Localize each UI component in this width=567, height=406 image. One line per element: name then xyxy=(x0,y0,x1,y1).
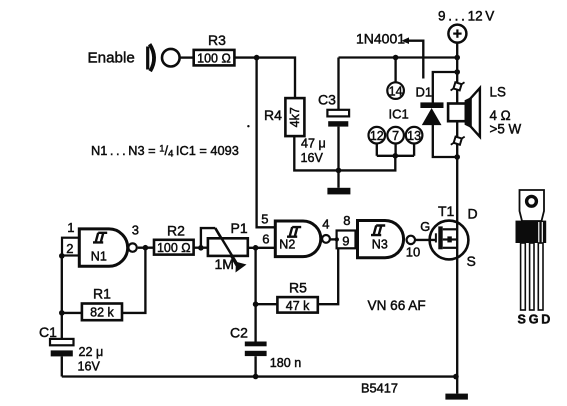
svg-text:R1: R1 xyxy=(93,286,111,302)
svg-text:C1: C1 xyxy=(39,324,57,340)
wire C1 bottom xyxy=(61,357,63,377)
wire P1 wiper loop xyxy=(201,228,215,248)
svg-text:C3: C3 xyxy=(318,92,336,108)
wire R4 bottom to ground row xyxy=(294,136,395,171)
wire P1 to N2 pin6 xyxy=(248,247,275,249)
capacitor C3 xyxy=(327,110,349,117)
svg-text:D: D xyxy=(468,206,478,222)
svg-text:47 k: 47 k xyxy=(286,299,310,313)
connector socket circle (enable) xyxy=(162,49,180,67)
svg-text:S: S xyxy=(467,253,476,269)
wire pin6 node down to C2 xyxy=(254,248,256,342)
svg-text:3: 3 xyxy=(132,222,139,237)
TO-220 hole xyxy=(527,196,537,206)
N1 input box pin2 xyxy=(62,238,79,256)
gate N1 xyxy=(79,229,127,266)
TO-220 body xyxy=(516,221,547,243)
wire R3 node down to N2 pin5 xyxy=(257,58,276,228)
wire pin12 stub xyxy=(376,144,378,156)
ground (C3) xyxy=(327,188,350,195)
connector square bottom (speaker) xyxy=(451,133,465,148)
N3 output bubble xyxy=(407,236,415,244)
svg-text:6: 6 xyxy=(262,231,269,246)
svg-text:N1: N1 xyxy=(91,250,107,264)
svg-text:R3: R3 xyxy=(208,32,226,48)
ground (bottom right) xyxy=(445,394,468,400)
N3 input box pin9 xyxy=(337,231,356,249)
svg-text:VN 66 AF: VN 66 AF xyxy=(368,298,426,313)
svg-text:SGD: SGD xyxy=(518,313,551,327)
wire main right vertical xyxy=(456,58,458,84)
wire IC pin bus xyxy=(377,155,414,157)
N2 output bubble xyxy=(322,235,330,243)
wire P1 wiper diagonal xyxy=(215,228,237,266)
svg-text:100 Ω: 100 Ω xyxy=(157,241,191,255)
wire N3 out to T1 gate xyxy=(416,239,436,241)
svg-text:14: 14 xyxy=(389,84,403,98)
capacitor C2 xyxy=(245,342,267,347)
svg-text:2: 2 xyxy=(66,241,73,256)
svg-text:R5: R5 xyxy=(289,279,307,295)
svg-text:4: 4 xyxy=(322,216,329,231)
svg-text:82 k: 82 k xyxy=(90,306,114,320)
IC1 pin 12 xyxy=(369,127,386,144)
svg-text:Enable: Enable xyxy=(88,50,135,67)
svg-text:10: 10 xyxy=(406,244,420,259)
wire pin14 stub xyxy=(394,58,396,83)
svg-text:16V: 16V xyxy=(78,359,101,373)
wire D1 branch xyxy=(433,72,457,103)
svg-text:9 . . . 12 V: 9 . . . 12 V xyxy=(438,8,494,23)
wire N2 out to N3 in xyxy=(330,238,337,240)
resistor R1 xyxy=(82,304,122,321)
svg-text:C2: C2 xyxy=(230,325,248,341)
resistor R5 xyxy=(277,297,317,313)
svg-text:T1: T1 xyxy=(438,203,455,219)
transistor T1 (MOSFET) xyxy=(430,221,469,260)
potentiometer P1 xyxy=(208,238,248,256)
svg-text:12: 12 xyxy=(370,129,384,143)
svg-text:13: 13 xyxy=(407,129,421,143)
gate N2 xyxy=(275,221,321,257)
svg-text:22 μ: 22 μ xyxy=(79,345,104,359)
svg-text:1N4001: 1N4001 xyxy=(356,31,405,47)
svg-text:N2: N2 xyxy=(279,238,295,252)
wire pin13 stub xyxy=(413,144,415,156)
wire pin7 stub xyxy=(394,144,396,156)
IC1 pin 13 xyxy=(406,127,423,144)
svg-text:P1: P1 xyxy=(231,220,248,236)
svg-text:B5417: B5417 xyxy=(361,380,398,395)
svg-text:100 Ω: 100 Ω xyxy=(197,52,231,66)
resistor R3 xyxy=(194,50,235,66)
connector plug (enable) xyxy=(148,44,154,71)
gate N3 xyxy=(358,221,404,258)
wire R1 right vertical xyxy=(122,248,145,313)
TO-220 package tab xyxy=(520,190,545,221)
wire R1 left xyxy=(62,312,82,314)
svg-text:4k7: 4k7 xyxy=(288,107,302,127)
resistor R2 xyxy=(154,240,194,255)
svg-text:180 n: 180 n xyxy=(270,356,302,370)
wire R5 left xyxy=(256,303,278,305)
svg-text:R4: R4 xyxy=(264,107,282,123)
arrowhead of callout xyxy=(402,37,410,44)
svg-text:7: 7 xyxy=(392,129,399,143)
connector square top (speaker) xyxy=(451,79,465,94)
svg-text:9: 9 xyxy=(342,234,349,249)
svg-text:N1 . . . N3 = 1/4 IC1 = 4093: N1 . . . N3 = 1/4 IC1 = 4093 xyxy=(91,143,239,160)
diode D1 xyxy=(420,102,443,108)
wire C3 top xyxy=(337,58,339,111)
svg-text:N3: N3 xyxy=(372,238,388,252)
wire R3 to R4 corner xyxy=(234,58,295,99)
supply terminal 9...12V xyxy=(448,25,466,43)
wire supply drop xyxy=(456,42,458,57)
schmitt symbol N3 xyxy=(371,226,385,236)
wire R5 right up to N3 input xyxy=(318,248,338,304)
svg-text:16V: 16V xyxy=(301,151,324,165)
svg-text:G: G xyxy=(420,219,430,234)
svg-text:>5 W: >5 W xyxy=(490,121,522,136)
svg-text:1: 1 xyxy=(67,220,74,235)
wire C2 bottom xyxy=(254,356,256,376)
wire N1 input down to C1 xyxy=(61,256,63,339)
wire N1 pin3 to R2 xyxy=(138,247,154,249)
wire bottom rail xyxy=(62,375,456,377)
svg-text:5: 5 xyxy=(261,212,268,227)
N1 output bubble xyxy=(128,243,136,251)
loudspeaker LS xyxy=(448,104,466,122)
schmitt symbol N2 xyxy=(287,227,301,237)
schmitt symbol N1 xyxy=(93,233,107,243)
wire enable to R3 xyxy=(180,56,194,58)
svg-text:1M: 1M xyxy=(215,256,234,272)
svg-text:47 μ: 47 μ xyxy=(301,136,326,150)
IC1 pin 7 xyxy=(387,127,404,144)
IC1 pin 14 xyxy=(387,82,404,99)
capacitor C1 xyxy=(50,339,74,345)
svg-text:R2: R2 xyxy=(167,223,185,239)
TO-220 legs xyxy=(521,243,526,310)
wire C3 bottom to ground xyxy=(337,127,339,188)
svg-text:IC1: IC1 xyxy=(389,106,409,121)
svg-text:8: 8 xyxy=(343,213,350,228)
wire +V rail xyxy=(339,56,458,58)
svg-text:D1: D1 xyxy=(416,85,433,100)
wire 1N4001 callout xyxy=(405,41,423,79)
resistor R4 xyxy=(285,98,304,136)
wire R2 to P1 xyxy=(194,247,208,249)
svg-text:LS: LS xyxy=(490,84,506,99)
